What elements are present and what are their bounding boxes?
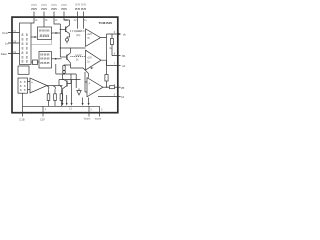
svg-text:VB: VB [121,86,125,90]
svg-text:8: 8 [26,42,28,46]
svg-text:scom: scom [95,118,101,121]
svg-text:7: 7 [114,62,116,66]
svg-text:1k: 1k [87,62,90,64]
svg-text:88: 88 [81,7,87,11]
svg-text:8: 8 [20,88,22,92]
svg-text:12: 12 [74,18,77,22]
svg-text:8: 8 [24,88,26,92]
svg-text:88: 88 [51,7,58,11]
svg-text:99: 99 [81,3,87,7]
svg-text:14: 14 [55,18,58,22]
svg-text:+: + [88,82,90,86]
svg-text:3: 3 [101,108,103,112]
svg-text:888: 888 [39,34,49,38]
svg-text:21: 21 [69,107,72,111]
svg-text:9: 9 [114,30,116,34]
svg-text:Data: Data [1,52,7,56]
svg-text:88: 88 [41,7,48,11]
svg-text:A1: A1 [122,64,126,68]
svg-text:888: 888 [40,61,50,65]
svg-text:1n: 1n [5,42,9,46]
svg-text:888: 888 [40,56,50,60]
svg-text:8: 8 [26,60,28,64]
svg-text:C4: C4 [121,95,125,99]
svg-text:+: + [31,81,33,85]
svg-text:88: 88 [31,7,38,11]
svg-text:(1k): (1k) [76,34,80,37]
svg-text:99: 99 [75,3,81,7]
svg-text:TCM1520: TCM1520 [99,21,113,25]
svg-text:8: 8 [114,52,116,56]
svg-text:(+12V: (+12V [75,54,82,57]
svg-text:2: 2 [91,108,93,112]
svg-text:1k: 1k [76,59,79,62]
svg-text:16: 16 [35,18,38,22]
svg-text:1: 1 [45,107,47,111]
svg-text:8: 8 [22,33,24,37]
svg-text:8: 8 [26,38,28,42]
svg-text:(+12V: (+12V [75,30,82,33]
svg-text:Vcom: Vcom [84,117,91,121]
svg-text:7k: 7k [87,38,90,40]
svg-text:88: 88 [61,7,68,11]
svg-text:8: 8 [22,42,24,46]
svg-text:8888: 8888 [39,28,51,32]
svg-text:8: 8 [26,47,28,51]
svg-text:8: 8 [22,51,24,55]
svg-text:15: 15 [45,18,48,22]
svg-text:6: 6 [114,83,116,87]
svg-text:+12V: +12V [87,34,93,36]
svg-text:C1F: C1F [40,117,45,121]
svg-text:8: 8 [26,51,28,55]
svg-text:11: 11 [84,18,87,22]
svg-text:C1A: C1A [2,31,8,35]
svg-text:8: 8 [22,60,24,64]
svg-text:8: 8 [22,38,24,42]
svg-text:8: 8 [26,33,28,37]
svg-text:5: 5 [114,93,116,97]
svg-text:-: - [31,89,33,93]
svg-text:B1: B1 [122,54,126,58]
svg-text:C1B: C1B [19,117,24,121]
svg-text:+12V: +12V [87,58,93,60]
svg-text:Vo: Vo [123,32,127,36]
svg-text:8: 8 [22,47,24,51]
